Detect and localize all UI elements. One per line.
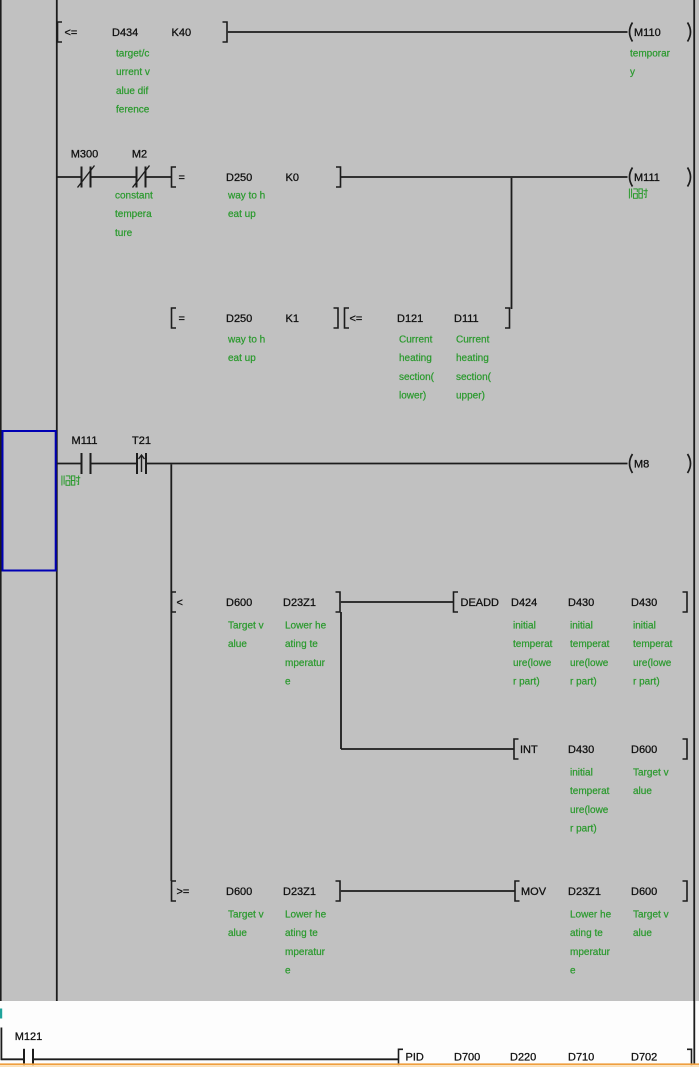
comment for D23Z1: Lower heating temperature [570, 910, 612, 977]
svg-text:ference: ference [116, 105, 150, 116]
svg-text:Target v: Target v [633, 768, 669, 779]
comment for D600: Target value [633, 768, 669, 798]
wire rung from left rail to M121 [1, 1058, 24, 1060]
compare block right bracket [336, 592, 341, 612]
svg-text:<: < [177, 597, 183, 609]
svg-text:T21: T21 [132, 435, 151, 447]
comment for D600: Target value [228, 910, 264, 940]
compare block LE D434 K40 - left bracket [58, 22, 63, 42]
svg-text:D111: D111 [454, 313, 479, 325]
svg-text:alue: alue [633, 786, 652, 797]
svg-text:lower): lower) [399, 391, 426, 402]
comment for D23Z1: Lower heating temperature [285, 910, 327, 977]
comment for D424: initial temperature(lower part) [513, 621, 553, 688]
svg-text:alue dif: alue dif [116, 86, 148, 97]
wire rung2 from left rail [57, 176, 82, 178]
svg-text:D430: D430 [631, 597, 657, 609]
compare block right bracket [336, 167, 341, 187]
svg-text:D250: D250 [226, 172, 252, 184]
comment for D600: Target value [228, 621, 264, 651]
svg-text:ating te: ating te [570, 928, 603, 939]
contact M111 [82, 453, 91, 474]
comment for D430: initial temperature(lower part) [570, 621, 610, 688]
comment for D430: initial temperature(lower part) [570, 768, 610, 835]
svg-text:e: e [285, 966, 291, 977]
svg-text:DEADD: DEADD [461, 597, 500, 609]
compare block EQ D250 K0 - left bracket [172, 167, 177, 187]
right power rail [693, 0, 695, 1001]
function block INT - right bracket [683, 739, 688, 759]
svg-text:D434: D434 [112, 27, 138, 39]
svg-text:K0: K0 [286, 172, 299, 184]
svg-text:ure(lowe: ure(lowe [513, 658, 552, 669]
compare block right bracket (GE) [336, 881, 341, 901]
svg-text:Lower he: Lower he [285, 621, 327, 632]
compare block right bracket [223, 22, 228, 42]
second compare block LE D121 D111 - left bracket [345, 308, 350, 328]
svg-text:PID: PID [406, 1051, 424, 1063]
branch junction wire down from rung2 [511, 178, 513, 309]
light orange separator fill [0, 1065, 699, 1067]
svg-text:=: = [179, 313, 185, 325]
branch wire down from row5 bracket to INT row [340, 612, 342, 749]
left power rail [56, 0, 58, 1001]
svg-text:D600: D600 [226, 597, 252, 609]
orange rung separator line [0, 1063, 699, 1065]
svg-text:M110: M110 [634, 27, 661, 39]
svg-text:way to h: way to h [227, 335, 265, 346]
svg-text:Current: Current [456, 335, 490, 346]
svg-text:temperat: temperat [513, 639, 553, 650]
svg-text:D600: D600 [631, 744, 657, 756]
svg-text:heating: heating [456, 353, 489, 364]
svg-text:M121: M121 [15, 1031, 43, 1043]
svg-text:ating te: ating te [285, 928, 318, 939]
svg-text:D220: D220 [510, 1051, 536, 1063]
svg-text:D600: D600 [226, 886, 252, 898]
svg-text:tempera: tempera [115, 209, 152, 220]
wire from M121 to PID block [33, 1058, 399, 1060]
svg-text:r part): r part) [513, 677, 540, 688]
comment for D250: way to heat up [227, 191, 265, 221]
svg-text:heating: heating [399, 353, 432, 364]
comment for contact M111: temporary (CJK) [62, 476, 80, 486]
branch wire down from rung3 to compare rows [170, 464, 172, 881]
svg-text:D23Z1: D23Z1 [283, 886, 316, 898]
svg-text:ure(lowe: ure(lowe [570, 658, 609, 669]
wire rung3 to coil M8 [146, 463, 628, 465]
svg-text:Target v: Target v [633, 910, 669, 921]
comment for D430 dest: initial temperature(lower part) [633, 621, 673, 688]
svg-text:D430: D430 [568, 744, 594, 756]
svg-text:D702: D702 [631, 1051, 657, 1063]
svg-text:e: e [285, 677, 291, 688]
svg-text:D430: D430 [568, 597, 594, 609]
svg-text:alue: alue [228, 639, 247, 650]
svg-text:mperatur: mperatur [570, 947, 611, 958]
svg-text:temperat: temperat [570, 786, 610, 797]
svg-text:alue: alue [228, 928, 247, 939]
wire rung3 from left rail [57, 463, 82, 465]
svg-text:constant: constant [115, 191, 153, 202]
svg-text:temporar: temporar [630, 49, 671, 60]
contact T21 (rising edge) [137, 453, 146, 474]
svg-text:>=: >= [177, 886, 190, 898]
svg-text:eat up: eat up [228, 209, 256, 220]
svg-text:D23Z1: D23Z1 [568, 886, 601, 898]
svg-text:r part): r part) [570, 677, 597, 688]
svg-text:mperatur: mperatur [285, 947, 326, 958]
svg-text:initial: initial [570, 768, 593, 779]
function block PID - right bracket [687, 1049, 692, 1067]
svg-text:MOV: MOV [521, 886, 547, 898]
svg-text:upper): upper) [456, 391, 485, 402]
function block MOV - left bracket [515, 881, 520, 901]
svg-text:ture: ture [115, 228, 133, 239]
svg-text:urrent v: urrent v [116, 67, 150, 78]
wire row5 to DEADD block [341, 601, 454, 603]
coil M8 [630, 454, 691, 473]
comment for D434: target/current value difference [116, 49, 150, 116]
function block INT - left bracket [514, 739, 519, 759]
comment for M2: constant temperature [115, 191, 153, 239]
svg-text:target/c: target/c [116, 49, 149, 60]
svg-text:Target v: Target v [228, 910, 264, 921]
coil M111 [630, 168, 691, 187]
svg-text:Current: Current [399, 335, 433, 346]
wire row7 to MOV block [341, 890, 515, 892]
blue selection rectangle on statement margin [3, 431, 56, 571]
contact M300 (normally closed) [78, 166, 95, 188]
svg-text:r part): r part) [633, 677, 660, 688]
wire row6 elbow to INT block [341, 748, 514, 750]
svg-text:r part): r part) [570, 824, 597, 835]
svg-text:ure(lowe: ure(lowe [570, 805, 609, 816]
comment for D111: Current heating section(upper) [456, 335, 492, 402]
svg-text:D23Z1: D23Z1 [283, 597, 316, 609]
cut-off step number glyph (teal) [0, 1009, 2, 1019]
branch compare block EQ D250 K1 - left bracket [172, 308, 177, 328]
svg-text:way to h: way to h [227, 191, 265, 202]
comment for M110: temporary [630, 49, 671, 79]
svg-text:=: = [179, 172, 185, 184]
svg-text:M111: M111 [634, 172, 660, 184]
svg-text:K1: K1 [286, 313, 299, 325]
svg-text:Target v: Target v [228, 621, 264, 632]
svg-text:D121: D121 [397, 313, 423, 325]
white ladder panel background (bottom) [0, 1001, 699, 1067]
svg-text:section(: section( [399, 372, 435, 383]
compare block GE D600 D23Z1 - left bracket [172, 881, 177, 901]
svg-text:M300: M300 [71, 149, 99, 161]
right power rail (bottom panel) [693, 1001, 695, 1064]
svg-text:D710: D710 [568, 1051, 594, 1063]
svg-text:initial: initial [570, 621, 593, 632]
svg-text:e: e [570, 966, 576, 977]
second compare block right bracket joining branch junction [505, 308, 510, 328]
svg-text:ure(lowe: ure(lowe [633, 658, 672, 669]
comment for D250: way to heat up [227, 335, 265, 365]
svg-text:INT: INT [520, 744, 538, 756]
wire rung1 to coil M110 [228, 31, 628, 33]
svg-text:D600: D600 [631, 886, 657, 898]
svg-text:section(: section( [456, 372, 492, 383]
svg-text:D700: D700 [454, 1051, 480, 1063]
wire rung2 between M300 and M2 [91, 176, 137, 178]
svg-text:K40: K40 [172, 27, 192, 39]
coil M110 [630, 23, 691, 42]
function block DEADD - right bracket [683, 592, 688, 612]
comment for D121: Current heating section(lower) [399, 335, 435, 402]
svg-text:mperatur: mperatur [285, 658, 326, 669]
svg-text:<=: <= [350, 313, 363, 325]
svg-text:M8: M8 [634, 458, 649, 470]
function block MOV - right bracket [683, 881, 688, 901]
svg-text:temperat: temperat [633, 639, 673, 650]
comment for D600: Target value [633, 910, 669, 940]
svg-text:alue: alue [633, 928, 652, 939]
comment for coil M111: temporary (CJK) [629, 189, 647, 199]
svg-text:ating te: ating te [285, 639, 318, 650]
comment for D23Z1: Lower heating temperature [285, 621, 327, 688]
svg-text:initial: initial [513, 621, 536, 632]
svg-text:y: y [630, 67, 635, 78]
contact M2 (normally closed) [133, 166, 150, 188]
wire rung3 between M111 and T21 [91, 463, 138, 465]
svg-text:D250: D250 [226, 313, 252, 325]
wire rung2 from M2 to compare block [146, 176, 172, 178]
svg-text:M2: M2 [132, 149, 147, 161]
function block DEADD - left bracket [454, 592, 459, 612]
svg-text:Lower he: Lower he [570, 910, 612, 921]
left power rail (bottom panel) [0, 1028, 2, 1061]
svg-text:<=: <= [65, 27, 78, 39]
svg-text:temperat: temperat [570, 639, 610, 650]
contact M121 [24, 1049, 33, 1067]
svg-text:Lower he: Lower he [285, 910, 327, 921]
svg-text:D424: D424 [511, 597, 537, 609]
compare block LT D600 D23Z1 - left bracket [172, 592, 177, 612]
function block PID - left bracket [399, 1049, 404, 1067]
svg-text:eat up: eat up [228, 353, 256, 364]
branch compare block right bracket [334, 308, 339, 328]
left window border [0, 0, 2, 1001]
svg-text:initial: initial [633, 621, 656, 632]
wire rung2 to coil M111 [341, 176, 628, 178]
svg-text:M111: M111 [72, 435, 98, 447]
